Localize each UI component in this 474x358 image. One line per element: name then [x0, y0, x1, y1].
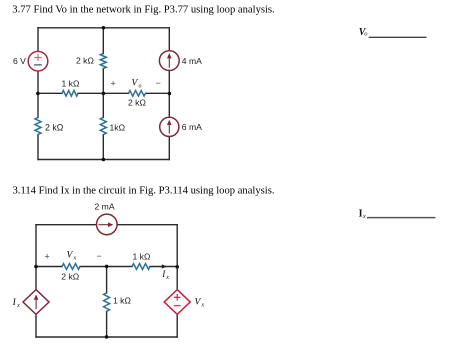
dependent voltage source diamond (right): [164, 290, 190, 315]
svg-text:1 kΩ: 1 kΩ: [133, 252, 151, 262]
wire: bottom rail: [38, 159, 169, 161]
svg-text:V: V: [132, 79, 139, 89]
node dot bottom middle: [102, 158, 106, 162]
label Vx symbol: [67, 251, 77, 262]
6mA arrow: [167, 120, 172, 134]
svg-text:4 mA: 4 mA: [182, 56, 202, 66]
answer blank line for Vo: [369, 36, 427, 38]
node dot second rail left: [34, 265, 38, 269]
svg-text:x: x: [201, 303, 205, 309]
Ix current arrow on wire: [162, 264, 167, 268]
wire: right rail upper: [176, 225, 178, 290]
svg-text:−: −: [97, 251, 102, 261]
wire: left rail upper: [35, 225, 37, 290]
svg-text:x: x: [73, 256, 77, 262]
svg-text:6 mA: 6 mA: [182, 122, 202, 132]
answer blank line for Ix: [367, 217, 435, 219]
svg-text:−: −: [156, 78, 161, 88]
wire: left rail between source and mid node: [37, 71, 39, 117]
wire: second rail right of 1k: [150, 266, 177, 268]
wire: top rail: [38, 27, 169, 29]
svg-text:1 kΩ: 1 kΩ: [62, 79, 80, 89]
svg-text:3.77 Find Vo in the network in: 3.77 Find Vo in the network in Fig. P3.7…: [12, 5, 274, 16]
label Ix on wire: [161, 269, 169, 281]
label Ix of left diamond: [12, 298, 21, 309]
wire: top rail right of 2mA: [117, 224, 177, 226]
node dot top middle: [102, 26, 106, 30]
wire: bottom rail: [36, 336, 177, 338]
resistor 2k (top middle vertical): [100, 54, 106, 69]
svg-text:o: o: [364, 30, 368, 37]
svg-text:x: x: [16, 303, 20, 309]
4mA arrow: [167, 53, 172, 68]
svg-text:x: x: [362, 213, 366, 220]
svg-text:I: I: [12, 298, 17, 308]
resistor 2k (bottom left vertical): [35, 117, 41, 134]
svg-text:2 kΩ: 2 kΩ: [128, 98, 146, 108]
wire: right rail below 6mA source: [168, 136, 170, 159]
wire: top rail left of 2mA: [36, 224, 96, 226]
answer label Ix: [359, 209, 366, 220]
label Vo symbol: [132, 79, 142, 90]
answer label Vo: [359, 27, 369, 38]
wire: right rail below diamond: [176, 314, 178, 337]
svg-text:2 mA: 2 mA: [95, 202, 115, 212]
node dot bottom middle: [105, 335, 109, 339]
current source 2mA circle: [97, 214, 118, 235]
label Vx of right diamond: [195, 298, 205, 309]
svg-text:2 kΩ: 2 kΩ: [61, 271, 79, 281]
wire: left rail below 2k resistor: [37, 135, 39, 160]
resistor 2k (second rail): [62, 264, 80, 270]
2mA arrow: [98, 222, 113, 227]
resistor 1k (bottom middle vertical): [100, 117, 106, 134]
wire: middle rail below 1k resistor: [102, 135, 104, 160]
svg-text:6 V: 6 V: [13, 56, 26, 66]
right diamond minus sign: [174, 305, 181, 307]
node dot second rail right: [175, 265, 179, 269]
resistor 1k (mid horizontal left): [62, 91, 78, 97]
current source 6mA circle: [160, 117, 179, 136]
6V plus sign: [34, 54, 41, 61]
wire: mid horizontal between 1k and 2k(Vo): [78, 92, 129, 94]
wire: second rail left of 2k: [36, 266, 62, 268]
wire: middle rail top segment: [102, 28, 104, 54]
wire: left rail upper (to 6V source): [37, 28, 39, 51]
wire: left rail below diamond: [35, 314, 37, 337]
wire: middle rail between 2k resistor and mid node: [102, 69, 104, 118]
right diamond plus sign: [174, 294, 181, 301]
svg-text:+: +: [45, 252, 50, 262]
svg-text:x: x: [165, 275, 169, 281]
dependent current source diamond (left): [23, 290, 49, 315]
svg-text:2 kΩ: 2 kΩ: [45, 123, 64, 133]
node dot mid-center: [102, 92, 106, 96]
resistor 1k (middle branch): [104, 293, 110, 311]
voltage source 6V circle: [28, 51, 48, 71]
svg-text:o: o: [139, 84, 142, 90]
svg-text:V: V: [195, 298, 202, 308]
wire: right rail between 4mA and 6mA: [168, 70, 170, 117]
wire: second rail between 2k and 1k: [80, 266, 132, 268]
current source 4mA circle: [159, 51, 179, 71]
svg-text:3.114 Find Ix in the circuit i: 3.114 Find Ix in the circuit in Fig. P3.…: [13, 185, 275, 196]
svg-text:V: V: [67, 251, 74, 261]
svg-text:2 kΩ: 2 kΩ: [76, 56, 94, 66]
svg-text:1kΩ: 1kΩ: [110, 123, 126, 133]
node dot mid-right: [168, 92, 172, 96]
resistor 1k (second rail): [132, 264, 150, 270]
wire: mid horizontal left of 1k: [38, 92, 62, 94]
6V minus sign: [34, 64, 42, 66]
left diamond arrow: [34, 294, 39, 309]
svg-text:1 kΩ: 1 kΩ: [113, 295, 131, 305]
wire: middle branch vertical lower: [106, 311, 108, 337]
resistor 2k Vo (mid horizontal right): [129, 91, 146, 97]
wire: right rail upper (to 4mA source): [168, 28, 170, 51]
wire: mid horizontal right of 2k(Vo): [146, 92, 170, 94]
node dot mid-left: [36, 92, 40, 96]
wire: middle branch vertical upper: [106, 267, 108, 293]
svg-text:+: +: [111, 79, 116, 89]
node dot second rail middle: [105, 265, 109, 269]
